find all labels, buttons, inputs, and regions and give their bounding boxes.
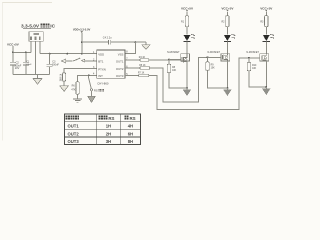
resistor R1 — [185, 16, 188, 27]
47K label — [71, 85, 76, 92]
capacitor C3 — [47, 54, 53, 75]
node gate 3 — [248, 57, 250, 59]
capacitor C2 — [10, 52, 16, 74]
svg-text:8H: 8H — [128, 139, 133, 144]
wire — [186, 12, 188, 16]
resistor R 360-1k — [63, 73, 66, 86]
C1 value label — [25, 62, 32, 67]
capacitor C4 — [108, 40, 110, 44]
RS label — [94, 89, 104, 93]
C2 value label — [14, 62, 22, 71]
svg-text:OUT3: OUT3 — [68, 139, 80, 144]
svg-text:VSS: VSS — [118, 52, 124, 56]
LED D2 — [224, 35, 231, 41]
svg-text:10K: 10K — [172, 70, 177, 72]
svg-text:OUT2: OUT2 — [116, 67, 124, 71]
svg-text:2H: 2H — [106, 131, 111, 136]
svg-text:CHY-860: CHY-860 — [97, 81, 109, 85]
wire — [226, 12, 228, 16]
regulator pin 2 (gnd) wire — [35, 41, 37, 74]
svg-text:R7 1K: R7 1K — [138, 73, 145, 75]
op IC U2 CHY-860 — [97, 50, 125, 78]
svg-text:6H: 6H — [128, 131, 133, 136]
faint page border left — [1, 2, 3, 140]
svg-text:C4 2.2u: C4 2.2u — [103, 37, 112, 40]
IC pin labels left — [98, 52, 105, 78]
node INT/RS — [88, 74, 90, 76]
svg-text:IC: IC — [50, 23, 55, 29]
table header row — [66, 116, 136, 121]
svg-text:10V: 10V — [15, 67, 20, 70]
output rail 3.3-5.0V — [40, 53, 97, 55]
OUT3 routing wire — [149, 58, 249, 110]
svg-text:BT1: BT1 — [98, 60, 104, 64]
source wire — [226, 61, 228, 88]
OUT1 wire — [125, 59, 140, 61]
C3 value label — [52, 60, 60, 66]
svg-text:N-MOSFET: N-MOSFET — [246, 51, 259, 54]
resistor R10 10K — [248, 58, 250, 63]
svg-text:R10: R10 — [252, 65, 257, 67]
svg-text:RS: RS — [130, 116, 136, 121]
svg-text:PTXN: PTXN — [98, 67, 105, 71]
svg-text:4H: 4H — [128, 124, 133, 129]
PTXN wire — [64, 69, 97, 73]
MOSFET Q1 — [181, 54, 190, 61]
resistor R8 10K — [168, 60, 170, 65]
faint page border top — [2, 1, 52, 3]
node VSS link — [134, 41, 136, 43]
source wire — [265, 61, 267, 87]
pin numbers right — [126, 51, 128, 76]
VDD riser wire — [81, 33, 83, 54]
wire — [186, 27, 188, 35]
svg-text:100nF: 100nF — [52, 63, 60, 66]
resistor R4 1K — [140, 59, 149, 62]
wire — [265, 27, 267, 35]
node C1 top — [25, 51, 27, 53]
ground 2 — [226, 88, 228, 89]
svg-text:VDD: VDD — [98, 52, 104, 56]
OUT2 routing wire — [150, 57, 208, 102]
svg-text:47K: 47K — [71, 89, 76, 92]
gate wire — [169, 59, 181, 61]
channel ch2 — [206, 6, 236, 96]
svg-text:N-MOSFET: N-MOSFET — [208, 51, 221, 54]
ground symbol near C4 — [142, 42, 150, 49]
resistor R 47K — [76, 82, 79, 99]
svg-text:VCC+5V: VCC+5V — [7, 42, 19, 46]
MOSFET Q3 — [260, 54, 269, 61]
title text 3.3-5.0V stabilizer IC — [21, 23, 56, 29]
VCC left stem — [12, 46, 14, 52]
ground under 360-1k — [60, 86, 69, 92]
three-bar ground under 47K — [73, 99, 82, 102]
C4 wire left — [82, 41, 108, 43]
svg-text:OUT3: OUT3 — [116, 74, 124, 78]
svg-text:OUT1: OUT1 — [68, 124, 80, 129]
INT wire — [78, 75, 97, 81]
LED D1 — [183, 35, 190, 41]
svg-text:R4 1K: R4 1K — [139, 57, 146, 59]
svg-text:R5 1K: R5 1K — [139, 65, 146, 67]
gate wire — [249, 57, 260, 59]
pin numbers left — [93, 51, 95, 76]
resistor R2 — [226, 16, 229, 27]
node VDD riser — [81, 53, 83, 55]
svg-text:OUT1: OUT1 — [116, 59, 124, 63]
resistor R3 — [265, 16, 268, 27]
table row OUT3 — [68, 139, 134, 144]
channel ch3 — [246, 6, 274, 95]
svg-text:10K: 10K — [252, 68, 257, 70]
regulator pin 3 (out) wire — [39, 41, 41, 53]
svg-text:VDD+3.3-5.0V: VDD+3.3-5.0V — [73, 27, 91, 31]
left +5V rail — [13, 51, 31, 53]
MOSFET Q2 — [221, 54, 230, 61]
node gate 1 — [168, 59, 170, 61]
VSS link wire — [125, 42, 135, 53]
node C2 top — [12, 51, 14, 53]
svg-text:N-MOSFET: N-MOSFET — [167, 51, 180, 54]
wire — [265, 12, 267, 16]
svg-text:INT: INT — [98, 74, 103, 78]
svg-text:100nF: 100nF — [25, 64, 32, 66]
node source/gnd 1 — [186, 87, 188, 89]
wire to drain — [265, 42, 267, 54]
OUT2 wire — [125, 67, 140, 69]
switch RS — [88, 75, 96, 102]
svg-text:360-1k: 360-1k — [59, 73, 62, 81]
capacitor C1 — [23, 52, 29, 74]
table row OUT2 — [68, 131, 134, 136]
table — [65, 114, 141, 145]
OUT1 gate wire — [149, 59, 181, 61]
resistor R7 1K — [139, 74, 149, 77]
node source/gnd 2 — [226, 87, 228, 89]
svg-text:3H: 3H — [106, 139, 111, 144]
svg-text:VCC+5V: VCC+5V — [181, 6, 194, 10]
resistor R5 1K — [140, 67, 150, 70]
regulator pin 1 wire — [30, 41, 32, 52]
channel ch1 — [167, 6, 195, 96]
node gate 2 — [207, 56, 209, 58]
LED D3 — [263, 35, 270, 41]
wire — [226, 27, 228, 35]
source wire — [186, 61, 188, 88]
C4 wire right — [111, 41, 146, 43]
wire to drain — [186, 42, 188, 54]
OUT3 wire — [125, 75, 139, 77]
node mid rail — [66, 53, 68, 55]
ground symbol left — [33, 75, 42, 85]
node C3 top — [49, 53, 51, 55]
svg-text:10K: 10K — [211, 68, 216, 70]
VDD arrow mark — [81, 31, 83, 33]
svg-text:OUT2: OUT2 — [68, 131, 80, 136]
regulator U1 — [29, 32, 43, 42]
ground 3 — [265, 87, 267, 88]
svg-text:RS: RS — [94, 89, 98, 93]
ground rail bottom left — [13, 74, 50, 76]
svg-text:1H: 1H — [106, 124, 111, 129]
node C4 left — [81, 41, 83, 43]
gate wire — [208, 56, 222, 58]
svg-text:RS: RS — [108, 116, 114, 121]
wire to drain — [226, 42, 228, 54]
table row OUT1 — [68, 124, 134, 129]
svg-text:VCC+5V: VCC+5V — [221, 6, 234, 10]
node source/gnd 3 — [265, 86, 267, 88]
touch plate arrow to BT1 — [61, 58, 97, 63]
svg-text:VCC+5V: VCC+5V — [260, 6, 273, 10]
ground 1 — [186, 88, 188, 89]
IC pin labels right — [116, 52, 124, 78]
resistor R9 10K — [207, 57, 209, 62]
